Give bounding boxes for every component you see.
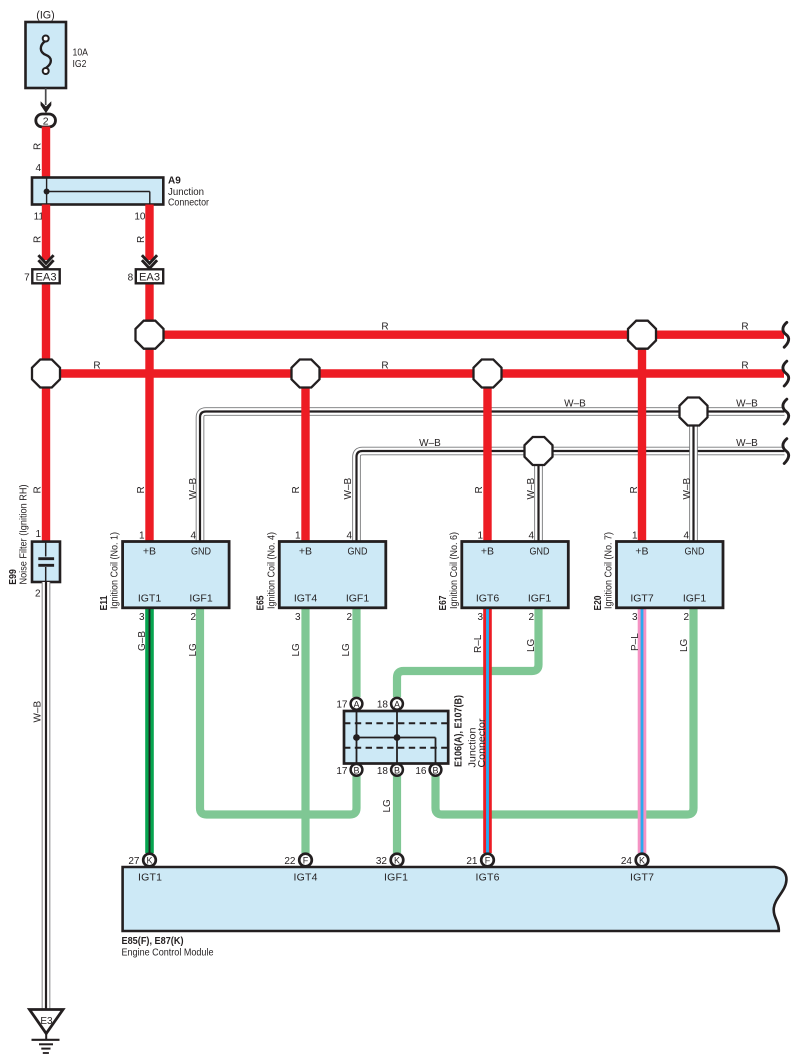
svg-text:1: 1 [477,531,483,542]
svg-text:A: A [353,699,359,709]
svg-text:IGT7: IGT7 [630,872,654,884]
label R on bus row2 left [93,361,100,372]
svg-text:E67: E67 [437,595,449,610]
wire fuse output [45,88,47,105]
svg-text:IGT6: IGT6 [476,872,500,884]
svg-text:R: R [629,486,640,493]
engine control module ECM box [123,867,787,931]
svg-text:2: 2 [683,612,689,623]
pin 11 label A9 [34,212,45,223]
svg-text:R: R [291,486,302,493]
wire W-B row2 octagon down to E67 GND [534,451,543,542]
junction connector E106(A) E107(B) [344,711,448,764]
E11 designator [98,532,121,611]
svg-text:R–L: R–L [473,634,484,653]
E99 designator [7,485,29,585]
junction connector pin circles [351,698,442,776]
svg-text:IGF1: IGF1 [189,593,212,605]
svg-text:Ignition Coil (No. 7): Ignition Coil (No. 7) [604,532,615,609]
label W-B on row1 mid [564,399,586,410]
svg-text:4: 4 [346,531,352,542]
ECM pin circles [143,854,648,867]
label G-B on IGT1 wire [137,631,148,651]
label W-B on E65 GND column [343,478,354,500]
svg-text:1: 1 [632,531,638,542]
svg-text:B: B [394,765,400,775]
break symbol end of W-B row1 [783,399,789,424]
node octagon on row1 at E20 +B column [628,321,656,349]
svg-text:1: 1 [139,531,145,542]
svg-text:2: 2 [35,589,41,600]
label R on E65 +B column [291,486,302,493]
wire R bus row2 [46,369,784,377]
E67 designator [437,532,460,611]
node octagon on row1 at EA3-8 column [136,321,164,349]
label W-B on E20 GND column [682,478,693,500]
svg-text:10: 10 [134,212,146,223]
label W-B on row2 right [736,438,758,449]
svg-text:4: 4 [35,163,41,174]
wire R row1 down to E20 +B [638,335,646,542]
label P-L on IGT7 wire [630,633,641,651]
wire R oval2 to A9 pin4 [42,127,50,178]
wire LG junction B18 to ECM 32 [393,776,401,853]
svg-text:W–B: W–B [564,399,586,410]
svg-text:IGF1: IGF1 [528,593,551,605]
wire R A9 pin11 to EA3-7 [42,205,50,261]
svg-text:W–B: W–B [526,478,537,500]
svg-text:K: K [146,856,152,866]
svg-text:K: K [639,856,645,866]
svg-text:W–B: W–B [419,438,441,449]
svg-text:E11: E11 [98,595,110,610]
label W-B on E11 GND column [188,478,199,500]
E20 designator [592,532,615,611]
ignition coil E11 box [123,542,230,608]
svg-text:E65: E65 [255,595,267,610]
svg-text:3: 3 [632,612,638,623]
svg-text:Junction: Junction [168,187,204,198]
svg-text:IGF1: IGF1 [346,593,369,605]
label R on bus row1 right [741,322,748,333]
svg-text:4: 4 [190,531,196,542]
wire W-B bus row1 (E11 GND up and right to edge) [200,412,785,542]
label R on E67 +B column [474,486,485,493]
svg-text:R: R [741,322,748,333]
wire W-B bus row2 (E65 GND up and right to edge) [357,451,785,542]
ignition coil E65 box [279,542,386,608]
node octagon on W-B row2 at E67 GND column [525,437,553,465]
label R below A9 pin11 [33,236,44,243]
svg-text:2: 2 [190,612,196,623]
junction connector pin numbers [336,700,427,778]
wire LG E20 IGF1 to junction B16 [436,608,694,815]
svg-text:10A: 10A [73,47,89,59]
svg-text:E3: E3 [40,1016,53,1027]
junction connector A9 [32,176,210,209]
svg-text:+B: +B [143,546,156,558]
svg-text:B: B [353,765,359,775]
svg-text:Noise Filter (Ignition RH): Noise Filter (Ignition RH) [18,485,29,585]
svg-text:LG: LG [341,643,352,657]
svg-text:7: 7 [24,273,30,284]
svg-text:GND: GND [530,546,550,558]
svg-text:W–B: W–B [682,478,693,500]
wire P-L E20 IGT7 to ECM 24 [638,608,647,853]
label W-B on filter-ground wire [33,701,44,723]
svg-text:W–B: W–B [736,438,758,449]
wire R row2 down to E65 +B [301,374,309,542]
svg-text:18: 18 [377,766,389,777]
break symbol end of R row1 [783,322,789,347]
svg-text:24: 24 [621,856,633,867]
svg-text:IGT1: IGT1 [138,593,161,605]
svg-text:LG: LG [679,638,690,652]
label R on bus row2 right [741,361,748,372]
svg-text:2: 2 [528,612,534,623]
svg-text:GND: GND [348,546,368,558]
svg-text:16: 16 [415,766,427,777]
svg-text:R: R [93,361,100,372]
label LG on E65 IGF1 wire [341,643,352,657]
wire R A9 pin10 to EA3-8 [145,205,153,261]
svg-text:IGT7: IGT7 [630,593,653,605]
svg-text:A9: A9 [168,176,181,187]
ground E3 [30,1010,64,1054]
svg-text:+B: +B [481,546,494,558]
svg-text:IGT6: IGT6 [476,593,499,605]
svg-text:IGF1: IGF1 [683,593,706,605]
svg-text:17: 17 [336,700,348,711]
wire R EA3-8 down to E11 +B [145,282,153,542]
svg-text:IGT4: IGT4 [294,593,317,605]
wire LG E65 IGF1 to junction A17 [352,608,360,697]
svg-text:R: R [474,486,485,493]
junction connector designator [453,695,488,768]
node octagon on row2 at E65 +B column [292,360,320,388]
arrow into connector 2 [41,101,52,113]
pin 10 label A9 [134,212,146,223]
svg-text:32: 32 [376,856,388,867]
svg-text:E106(A), E107(B): E106(A), E107(B) [453,695,465,767]
ECM pin numbers [128,856,632,867]
svg-text:IGF1: IGF1 [384,872,408,884]
svg-text:Engine Control Module: Engine Control Module [122,948,214,959]
E20 pin numbers [632,531,690,624]
label R on E20 +B column [629,486,640,493]
node octagon on W-B row1 at E20 GND column [680,398,708,426]
node octagon on row2 at E67 +B column [474,360,502,388]
svg-text:GND: GND [685,546,705,558]
svg-text:E85(F), E87(K): E85(F), E87(K) [122,936,184,947]
label LG on E65 IGT4 wire [291,643,302,657]
svg-text:W–B: W–B [343,478,354,500]
label R on bus row2 mid [381,361,388,372]
wire LG E11 IGF1 to junction B17 [200,608,357,815]
connector EA3 pin8 [128,269,164,283]
svg-text:4: 4 [528,531,534,542]
svg-text:Connector: Connector [168,198,210,209]
svg-text:R: R [33,486,44,493]
svg-text:A: A [394,699,400,709]
arrow chevrons above EA3-7 [38,255,53,268]
svg-text:LG: LG [382,799,393,813]
label W-B on E67 GND column [526,478,537,500]
label R below A9 pin10 [136,236,147,243]
ECM pin names [138,872,654,884]
svg-text:B: B [432,765,438,775]
arrow chevrons above EA3-8 [142,255,157,268]
wire G-B E11 IGT1 to ECM 27 [145,608,154,853]
wire R-L E67 IGT6 to ECM 21 [483,608,492,853]
label W-B on row1 right [736,399,758,410]
svg-text:R: R [381,361,388,372]
node octagon on row2 at left column [32,360,60,388]
svg-text:K: K [394,856,400,866]
ECM designator [122,936,214,959]
svg-text:Ignition Coil (No. 1): Ignition Coil (No. 1) [110,532,121,609]
ignition coil E67 box [462,542,569,608]
svg-text:P–L: P–L [630,633,641,651]
svg-text:E20: E20 [592,595,604,610]
svg-text:W–B: W–B [736,399,758,410]
svg-text:Ignition Coil (No. 4): Ignition Coil (No. 4) [266,532,277,609]
label R on left column above filter [33,486,44,493]
svg-text:E99: E99 [7,569,19,585]
wire W-B noise filter to ground E3 [42,582,51,1010]
E99 pin numbers [35,529,42,600]
svg-text:GND: GND [191,546,211,558]
label R above oval2-A9 segment [33,143,44,150]
label W-B on row2 mid [419,438,441,449]
svg-text:3: 3 [477,612,483,623]
label LG on B18-ECM wire [382,799,393,813]
svg-text:EA3: EA3 [139,271,160,283]
label R-L on IGT6 wire [473,634,484,653]
label LG on E11 IGF1 wire [188,643,199,657]
noise filter E99 [32,542,60,582]
svg-text:Ignition Coil (No. 6): Ignition Coil (No. 6) [449,532,460,609]
E11 pin numbers [139,531,197,624]
connector EA3 pin7 [24,269,60,283]
svg-text:W–B: W–B [33,701,44,723]
svg-text:2: 2 [43,116,49,128]
svg-text:+B: +B [299,546,312,558]
E65 designator [255,532,278,611]
ignition coil E20 box [617,542,724,608]
svg-text:W–B: W–B [188,478,199,500]
svg-text:F: F [485,856,491,866]
svg-text:1: 1 [295,531,301,542]
label R on bus row1 mid [381,322,388,333]
svg-text:LG: LG [526,638,537,652]
wire R row2 down to E67 +B [483,374,491,542]
svg-text:+B: +B [635,546,648,558]
pin 4 label A9 [35,163,41,174]
svg-text:3: 3 [295,612,301,623]
svg-text:R: R [136,486,147,493]
svg-text:LG: LG [188,643,199,657]
svg-text:22: 22 [284,856,296,867]
label R on E11 +B column [136,486,147,493]
E67 pin numbers [477,531,534,624]
svg-text:8: 8 [128,273,134,284]
wire W-B row1 octagon down to E20 GND [689,412,698,542]
svg-text:IG2: IG2 [73,58,87,70]
svg-text:18: 18 [377,700,389,711]
wire R bus row1 [150,331,785,339]
svg-text:IGT1: IGT1 [138,872,162,884]
svg-text:(IG): (IG) [36,10,55,22]
E65 pin numbers [295,531,353,624]
svg-text:Connector: Connector [477,718,488,768]
label LG on E20 IGF1 wire [679,638,690,652]
label LG on E67 IGF1 wire [526,638,537,652]
wire LG E67 IGF1 to junction A18 [397,608,539,697]
svg-text:R: R [381,322,388,333]
svg-text:27: 27 [128,856,140,867]
svg-text:17: 17 [336,766,348,777]
wire R EA3-7 down to noise filter E99 pin1 [42,282,50,542]
svg-text:1: 1 [35,529,41,540]
svg-text:G–B: G–B [137,631,148,651]
svg-text:21: 21 [466,856,478,867]
svg-text:2: 2 [346,612,352,623]
svg-text:R: R [741,361,748,372]
break symbol end of R row2 [783,361,789,386]
svg-text:LG: LG [291,643,302,657]
break symbol end of W-B row2 [783,439,789,464]
wire LG E65 IGT4 to ECM 22 [301,608,309,853]
svg-text:IGT4: IGT4 [294,872,318,884]
svg-text:F: F [303,856,309,866]
fuse IG2 10A [26,10,89,89]
connector oval 2 [36,114,56,128]
svg-text:3: 3 [139,612,145,623]
svg-text:4: 4 [683,531,689,542]
svg-text:EA3: EA3 [36,271,57,283]
